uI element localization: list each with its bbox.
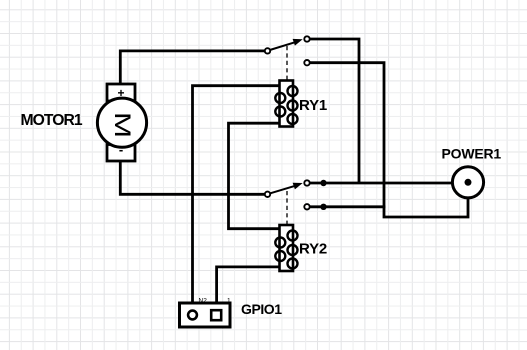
svg-text:1: 1 bbox=[227, 298, 231, 305]
wire RY1 coil pin 1 to GPIO1 pin 1 bbox=[193, 86, 280, 311]
svg-text:POWER1: POWER1 bbox=[442, 146, 502, 162]
svg-text:M: M bbox=[110, 112, 135, 138]
relay RY1 switch arm with arrow bbox=[270, 39, 303, 50]
relay RY2 coil bbox=[275, 225, 297, 271]
wire RY1 coil pin 2 to RY2 coil pin 1 bbox=[229, 123, 280, 229]
relay RY1 coil bbox=[275, 81, 297, 127]
svg-text:MOTOR1: MOTOR1 bbox=[21, 112, 83, 129]
wire RY2 coil pin 2 to GPIO1 pin 2 bbox=[217, 267, 279, 310]
svg-text:N2: N2 bbox=[199, 298, 208, 305]
wire RY2 NO contact to POWER1 sleeve bbox=[310, 182, 453, 185]
relay RY1 NC contact bbox=[304, 60, 309, 65]
wire RY1 NC contact to POWER1 center pin bbox=[310, 63, 469, 217]
wire motor minus terminal to RY2 common bbox=[120, 161, 266, 194]
relay RY2 NC contact bbox=[304, 204, 309, 209]
relay RY1 NO contact bbox=[304, 36, 309, 41]
power jack POWER1 bbox=[452, 167, 483, 198]
relay RY2 switch common pivot bbox=[265, 192, 270, 197]
relay RY2 coil link dashed bbox=[286, 191, 288, 224]
motor MOTOR1 bbox=[97, 84, 146, 161]
svg-text:RY2: RY2 bbox=[299, 241, 327, 258]
junction on RY2 NO wire bbox=[320, 180, 326, 186]
svg-text:GPIO1: GPIO1 bbox=[241, 301, 282, 317]
junction on RY2 NC wire bbox=[320, 204, 326, 210]
wire RY1 NO contact to middle net bbox=[310, 39, 360, 182]
svg-text:-: - bbox=[119, 142, 123, 157]
relay RY2 switch arm with arrow bbox=[270, 183, 303, 194]
svg-text:+: + bbox=[117, 86, 124, 100]
wire motor plus terminal to RY1 common bbox=[120, 51, 266, 84]
relay RY2 NO contact bbox=[304, 180, 309, 185]
gpio header GPIO1 bbox=[180, 303, 231, 327]
wire RY2 NC contact to NC net bbox=[310, 205, 385, 208]
svg-text:RY1: RY1 bbox=[299, 97, 327, 114]
relay RY1 coil link dashed bbox=[286, 46, 288, 80]
relay RY1 switch common pivot bbox=[265, 48, 270, 53]
